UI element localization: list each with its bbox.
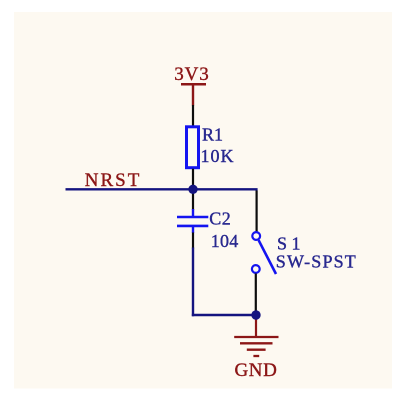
svg-text:R1: R1: [202, 125, 223, 145]
ground GND bar 2: [240, 342, 273, 344]
svg-text:GND: GND: [235, 360, 277, 381]
capacitor C2 pin 2: [192, 233, 194, 249]
capacitor C2 top plate: [177, 216, 208, 219]
svg-text:104: 104: [211, 231, 239, 251]
capacitor C2 top lead: [192, 209, 194, 216]
svg-text:10K: 10K: [201, 146, 234, 166]
ground GND bar 1: [234, 336, 278, 338]
switch S1 contact circle top: [252, 232, 260, 240]
capacitor C2 bottom lead: [192, 227, 194, 233]
resistor R1 pin 2: [192, 169, 194, 190]
svg-text:C2: C2: [209, 209, 231, 229]
capacitor C2 bottom plate: [177, 225, 208, 228]
svg-text:NRST: NRST: [85, 170, 140, 191]
svg-text:3V3: 3V3: [174, 64, 209, 85]
wire ground net horizontal: [192, 314, 256, 316]
switch S1 pin 1: [256, 191, 258, 233]
resistor R1: [187, 127, 199, 168]
junction at R1/C2/NRST node: [188, 185, 197, 194]
power port 3V3: [174, 64, 209, 106]
wire NRST horizontal: [66, 188, 258, 190]
ground GND bar 3: [247, 349, 266, 351]
switch S1 pin 2: [255, 274, 257, 316]
junction at S1/C2/GND node: [251, 310, 260, 319]
switch S1 contact circle bottom: [252, 265, 260, 273]
wire C2 to ground net vertical: [192, 248, 194, 317]
switch S1 blade: [259, 240, 276, 274]
ground GND stem: [255, 315, 257, 337]
ground GND bar 4: [253, 355, 259, 357]
resistor R1 pin 1: [192, 105, 194, 126]
capacitor C2 pin 1: [192, 189, 194, 210]
